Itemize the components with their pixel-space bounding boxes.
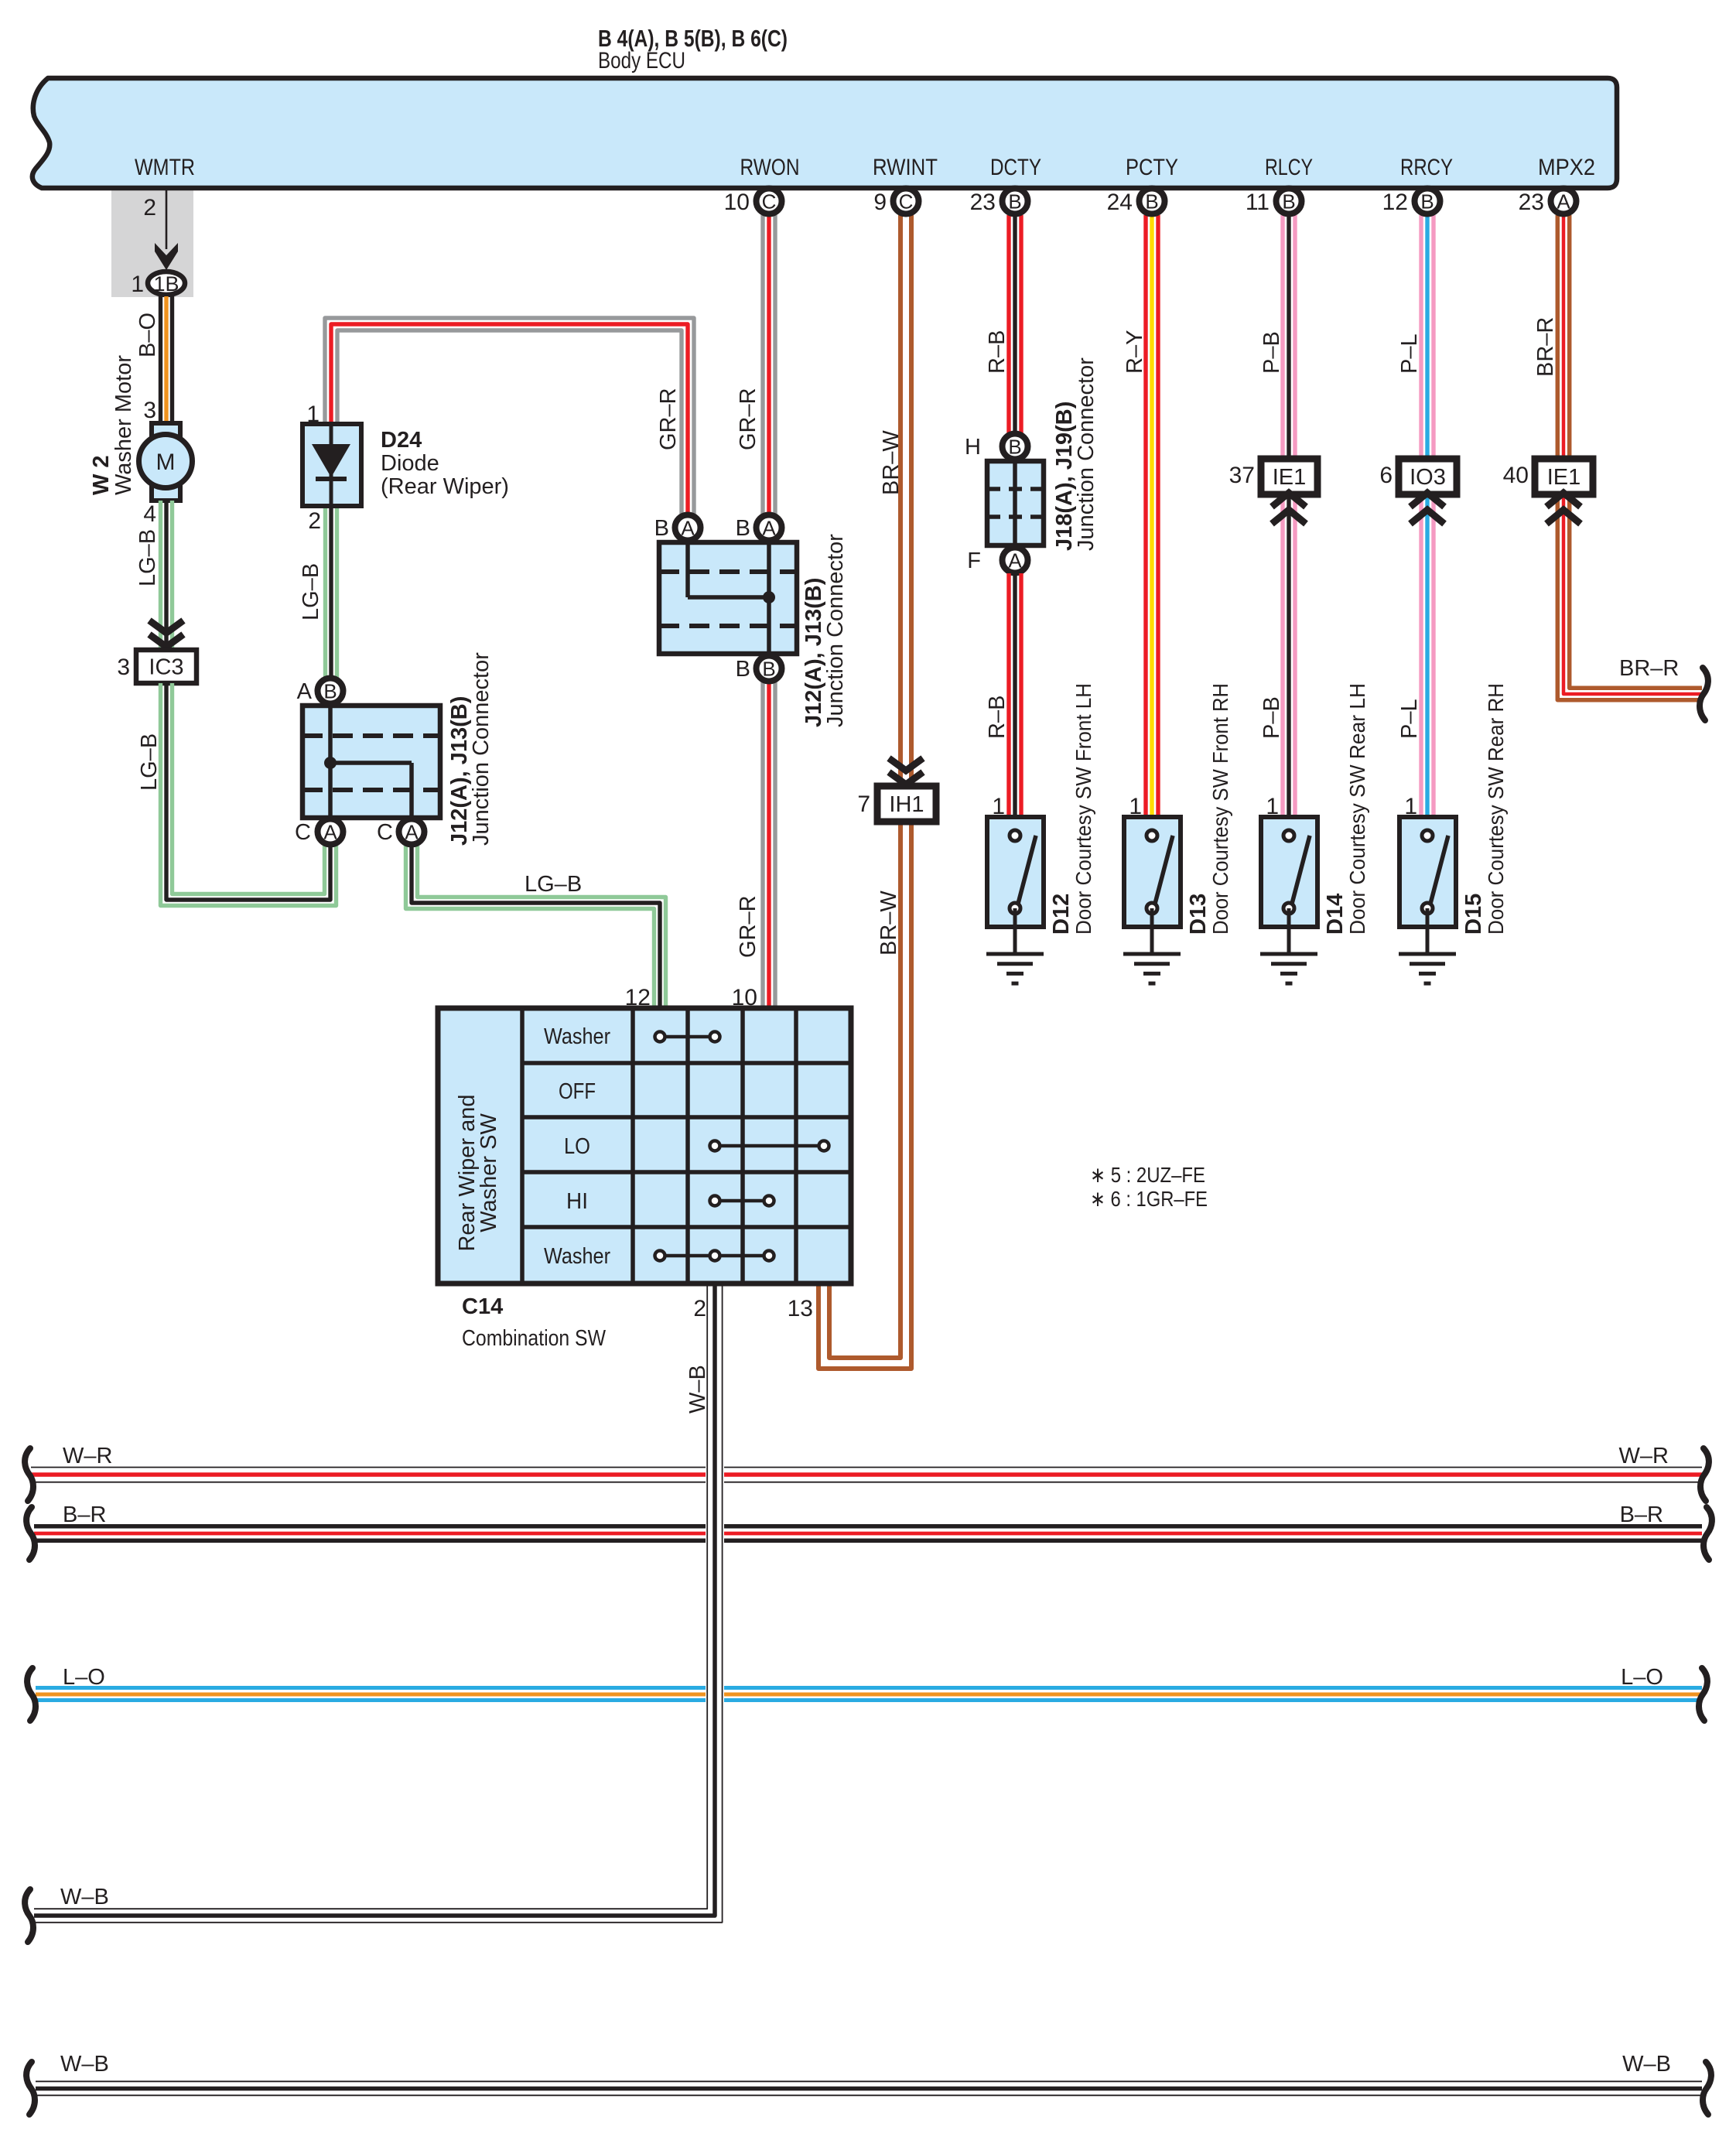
break squiggle W-B bus2 left <box>26 2062 35 2114</box>
svg-text:M: M <box>156 450 176 475</box>
wire GR-R junction to combination SW pin 10 <box>773 682 777 1007</box>
pin C(A)#1 bottom of left junction <box>318 819 343 845</box>
wire R-B J18 to door courtesy SW front LH <box>1019 573 1023 815</box>
svg-text:13: 13 <box>788 1296 813 1321</box>
svg-text:W–B: W–B <box>60 1885 109 1909</box>
ECU pin 23(A) MPX2 <box>1551 189 1577 214</box>
ground wire of D14 <box>1287 908 1291 954</box>
svg-text:A: A <box>1008 549 1022 573</box>
svg-text:P–L: P–L <box>1397 333 1422 374</box>
svg-text:B: B <box>1282 190 1295 214</box>
svg-text:Combination SW: Combination SW <box>462 1326 607 1351</box>
svg-text:2: 2 <box>308 508 321 534</box>
svg-text:10: 10 <box>724 190 750 215</box>
pin H(B) of J18 <box>1003 434 1028 460</box>
svg-text:RWON: RWON <box>740 155 800 180</box>
contacts row HI <box>715 1199 769 1203</box>
svg-text:(Rear Wiper): (Rear Wiper) <box>381 474 509 499</box>
svg-text:IO3: IO3 <box>1410 465 1446 490</box>
contacts row Washer bottom <box>660 1254 769 1258</box>
svg-text:3: 3 <box>143 398 156 423</box>
svg-text:11: 11 <box>1246 190 1270 215</box>
svg-text:Body ECU: Body ECU <box>598 48 685 73</box>
wire LG-B motor to IC3 <box>170 501 174 650</box>
junction dot in J12 left box <box>324 757 337 769</box>
svg-text:B: B <box>762 658 775 681</box>
wire BR-W IH1 down then U-turn up to combination SW pin 13 <box>818 822 911 1369</box>
svg-text:MPX2: MPX2 <box>1538 155 1595 180</box>
break squiggle L-O right <box>1699 1668 1707 1721</box>
svg-text:A: A <box>681 517 695 540</box>
svg-text:BR–W: BR–W <box>877 891 901 955</box>
wire BR-R from IE1 40 down then right to edge <box>1570 495 1702 688</box>
svg-text:RLCY: RLCY <box>1265 155 1313 180</box>
svg-text:23: 23 <box>1519 190 1544 215</box>
pin C(A)#2 bottom of left junction <box>399 819 425 845</box>
svg-text:6: 6 <box>1379 463 1393 488</box>
svg-text:B: B <box>654 516 669 541</box>
ECU pin 12(B) RRCY <box>1415 189 1440 214</box>
svg-text:IE1: IE1 <box>1273 465 1307 490</box>
svg-text:Junction Connector: Junction Connector <box>469 652 494 846</box>
contacts row Washer top <box>660 1035 715 1039</box>
svg-text:C: C <box>899 190 914 214</box>
svg-text:L–O: L–O <box>1621 1665 1663 1690</box>
wire W-B combination SW pin 2 down to W-B bus <box>705 1285 724 1904</box>
svg-text:Washer SW: Washer SW <box>477 1113 501 1232</box>
svg-text:Junction Connector: Junction Connector <box>823 534 848 727</box>
svg-text:LO: LO <box>564 1134 590 1159</box>
svg-text:A: A <box>1557 190 1570 214</box>
svg-text:12: 12 <box>625 985 651 1010</box>
arrow chevrons below IO3 <box>1410 493 1444 507</box>
svg-text:Door Courtesy SW Front RH: Door Courtesy SW Front RH <box>1208 683 1232 935</box>
svg-text:GR–R: GR–R <box>736 388 760 450</box>
svg-text:IH1: IH1 <box>889 792 924 817</box>
svg-text:GR–R: GR–R <box>656 388 681 450</box>
svg-text:HI: HI <box>566 1189 588 1214</box>
arrow chevrons below IE1 40 <box>1546 493 1581 507</box>
svg-text:W 2: W 2 <box>89 455 114 495</box>
svg-text:LG–B: LG–B <box>137 733 162 791</box>
svg-text:2: 2 <box>693 1296 706 1321</box>
svg-text:LG–B: LG–B <box>299 563 323 620</box>
svg-text:W–B: W–B <box>1622 2052 1671 2077</box>
svg-text:D12: D12 <box>1049 894 1074 935</box>
svg-text:∗ 5 : 2UZ–FE: ∗ 5 : 2UZ–FE <box>1090 1163 1205 1187</box>
pin B(B) bottom of middle junction <box>757 656 782 682</box>
arrow chevrons into IC3 <box>149 620 183 633</box>
svg-text:P–B: P–B <box>1259 696 1284 739</box>
bus B-R <box>34 1524 706 1529</box>
svg-text:24: 24 <box>1107 190 1133 215</box>
svg-text:LG–B: LG–B <box>135 529 160 586</box>
wire LG-B from IC3 to junction J12 pin A(C) <box>173 683 325 894</box>
svg-text:W–B: W–B <box>685 1365 710 1414</box>
contacts row LO <box>715 1144 824 1148</box>
svg-text:H: H <box>965 435 981 460</box>
svg-text:F: F <box>967 549 981 573</box>
svg-text:B: B <box>323 680 337 703</box>
junction connector J12(A) J13(B) middle box <box>659 542 797 654</box>
svg-text:D15: D15 <box>1461 894 1486 935</box>
ECU pin RWON 10(C) wire GR-R down to junction <box>773 215 777 514</box>
svg-text:L–O: L–O <box>63 1665 105 1690</box>
diode D24 (Rear Wiper) <box>302 424 361 506</box>
svg-text:4: 4 <box>143 501 156 527</box>
svg-text:IC3: IC3 <box>149 655 183 680</box>
svg-text:W–R: W–R <box>63 1444 112 1468</box>
svg-text:C: C <box>377 820 393 845</box>
svg-text:Door Courtesy SW Front LH: Door Courtesy SW Front LH <box>1071 683 1095 935</box>
svg-text:3: 3 <box>117 655 130 680</box>
svg-text:LG–B: LG–B <box>525 872 582 897</box>
wire LG-B from D24 pin2 down to junction J12 pin B top <box>335 506 339 678</box>
svg-text:R–B: R–B <box>985 330 1010 374</box>
svg-text:Door Courtesy SW Rear RH: Door Courtesy SW Rear RH <box>1484 683 1508 935</box>
ground symbol of D14 <box>1260 952 1317 956</box>
svg-text:D13: D13 <box>1186 894 1211 935</box>
pin B(A)#1 top of middle junction <box>675 515 701 541</box>
arrow chevrons into IH1 <box>889 758 923 771</box>
svg-text:B–R: B–R <box>63 1502 106 1527</box>
svg-text:B: B <box>1008 436 1021 459</box>
svg-text:Washer: Washer <box>544 1024 610 1049</box>
washer motor W2 <box>152 423 180 445</box>
svg-text:∗ 6 : 1GR–FE: ∗ 6 : 1GR–FE <box>1090 1187 1208 1211</box>
svg-text:GR–R: GR–R <box>736 895 760 958</box>
ground symbol of D13 <box>1123 952 1181 956</box>
svg-text:D24: D24 <box>381 428 422 453</box>
ECU pin 10(C) RWON <box>757 189 782 214</box>
svg-text:BR–R: BR–R <box>1619 656 1679 681</box>
svg-text:RWINT: RWINT <box>873 155 938 180</box>
svg-text:37: 37 <box>1229 463 1255 488</box>
break squiggle W-B bus1 left <box>25 1889 33 1942</box>
svg-text:B: B <box>1145 190 1158 214</box>
ECU pin MPX2 23(A) wire BR-R to IE1 40 <box>1567 215 1572 459</box>
svg-text:W–B: W–B <box>60 2052 109 2077</box>
svg-text:A: A <box>762 517 776 540</box>
svg-text:B–R: B–R <box>1620 1502 1663 1527</box>
svg-text:A: A <box>297 679 313 704</box>
svg-text:W–R: W–R <box>1619 1444 1669 1468</box>
svg-text:B: B <box>736 516 750 541</box>
svg-text:DCTY: DCTY <box>990 155 1041 180</box>
arrow chevrons below IE1 37 <box>1272 493 1306 507</box>
Body ECU B4(A) B5(B) B6(C) <box>32 78 1617 188</box>
break squiggle BR-R right <box>1700 668 1708 720</box>
svg-text:P–B: P–B <box>1259 331 1284 374</box>
svg-text:7: 7 <box>857 791 870 817</box>
arrow into connector 1B <box>155 243 178 270</box>
bus W-B bottom (full width) <box>36 2080 1702 2082</box>
ECU pin 9(C) RWINT <box>894 189 919 214</box>
connector 1B ellipse <box>148 272 185 295</box>
svg-text:1: 1 <box>306 402 320 427</box>
svg-text:BR–W: BR–W <box>879 430 904 495</box>
svg-text:B: B <box>736 657 750 682</box>
svg-text:WMTR: WMTR <box>135 155 195 180</box>
svg-text:D14: D14 <box>1323 894 1348 935</box>
gray highlight zone (WMTR output) <box>111 188 193 297</box>
svg-text:B: B <box>1008 190 1021 214</box>
break squiggle W-B bus2 right <box>1703 2062 1711 2114</box>
svg-text:A: A <box>323 821 337 844</box>
ECU pin RLCY 11(B) wire P-B to IE1 <box>1293 215 1297 815</box>
ground wire of D13 <box>1150 908 1154 954</box>
ground symbol of D15 <box>1399 952 1456 956</box>
svg-text:Washer: Washer <box>544 1244 610 1269</box>
junction dot in middle box <box>763 591 775 603</box>
svg-text:R–Y: R–Y <box>1123 330 1147 374</box>
svg-text:C14: C14 <box>462 1294 503 1319</box>
svg-text:OFF: OFF <box>559 1079 596 1104</box>
wire GR-R from D24 pin1 up and over to junction J12/J13 pin B(A) <box>325 318 694 514</box>
svg-text:2: 2 <box>143 195 156 220</box>
wire WMTR pin2 to connector 1B <box>166 190 168 249</box>
ground wire of D12 <box>1013 908 1017 954</box>
ECU pin 24(B) PCTY <box>1140 189 1165 214</box>
ground wire of D15 <box>1426 908 1430 954</box>
ECU pin RWINT 9(C) wire BR-W down to IH1 <box>909 215 914 786</box>
svg-text:10: 10 <box>732 985 757 1010</box>
ECU pin 11(B) RLCY <box>1276 189 1302 214</box>
ECU pin DCTY 23(B) wire R-B down to J18 <box>1019 215 1023 433</box>
svg-text:Diode: Diode <box>381 451 439 476</box>
break squiggle L-O left <box>27 1668 36 1721</box>
wire LG-B from junction pin C(A)#2 down-right to combination SW pin 12 <box>418 845 666 1007</box>
svg-text:1: 1 <box>131 272 144 297</box>
wire B-O washer motor feed <box>170 296 174 426</box>
svg-text:40: 40 <box>1503 463 1529 488</box>
svg-text:B: B <box>1420 190 1434 214</box>
svg-text:B–O: B–O <box>135 313 160 357</box>
svg-text:RRCY: RRCY <box>1400 155 1453 180</box>
break squiggle W-R right <box>1700 1448 1709 1501</box>
svg-text:23: 23 <box>970 190 996 215</box>
svg-text:Washer Motor: Washer Motor <box>111 355 136 495</box>
break squiggle B-R left <box>26 1507 35 1560</box>
junction connector J12(A) J13(B) left box <box>302 706 440 818</box>
svg-text:IE1: IE1 <box>1547 465 1581 490</box>
svg-text:P–L: P–L <box>1397 699 1422 739</box>
svg-text:PCTY: PCTY <box>1126 155 1178 180</box>
pin F(A) of J18 <box>1003 548 1028 573</box>
svg-text:A: A <box>405 821 419 844</box>
svg-text:C: C <box>762 190 777 214</box>
ECU pin 23(B) DCTY <box>1003 189 1028 214</box>
svg-text:1B: 1B <box>153 272 179 296</box>
svg-text:C: C <box>295 820 311 845</box>
pin B(A)#2 top of middle junction <box>757 515 782 541</box>
svg-text:12: 12 <box>1382 190 1408 215</box>
ECU pin PCTY 24(B) wire R-Y down to door courtesy SW front RH <box>1156 215 1160 815</box>
bus W-R <box>31 1467 706 1468</box>
svg-text:BR–R: BR–R <box>1533 317 1558 377</box>
bus L-O <box>36 1686 706 1690</box>
ground symbol of D12 <box>986 952 1044 956</box>
combination switch C14 Rear Wiper and Washer SW <box>438 1008 851 1284</box>
break squiggle B-R right <box>1704 1507 1712 1560</box>
pin A(B) top of left junction <box>318 679 343 704</box>
ECU pin RRCY 12(B) wire P-L to IO3 <box>1431 215 1435 815</box>
svg-text:9: 9 <box>873 190 887 215</box>
svg-text:Junction Connector: Junction Connector <box>1074 357 1099 551</box>
break squiggle W-R left <box>25 1448 33 1501</box>
svg-text:R–B: R–B <box>985 696 1010 739</box>
junction connector J18(A) J19(B) <box>987 461 1044 545</box>
svg-text:Door Courtesy SW Rear LH: Door Courtesy SW Rear LH <box>1345 683 1369 935</box>
